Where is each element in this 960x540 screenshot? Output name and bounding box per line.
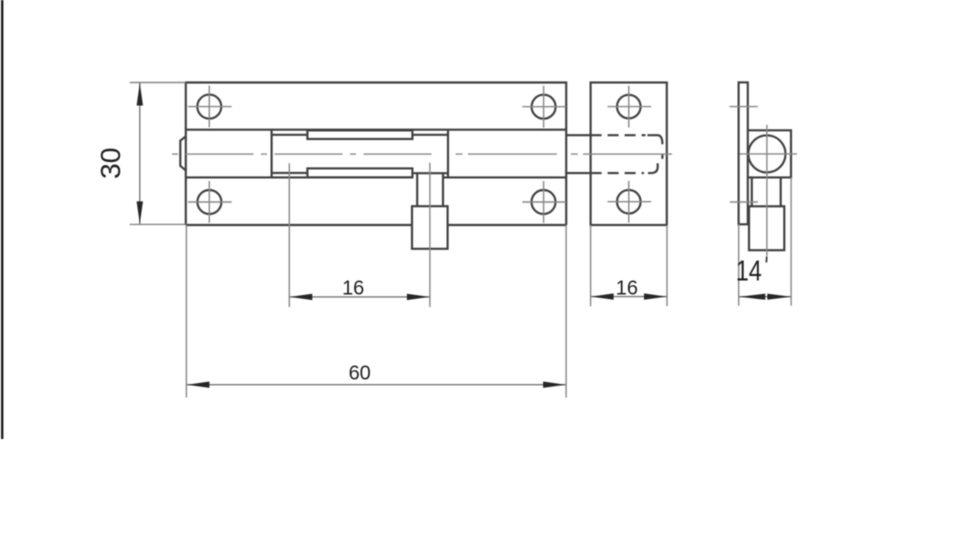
carriage top inset line left bbox=[272, 134, 308, 136]
arrow 16 main right bbox=[407, 294, 430, 300]
keeper hole tick v top bbox=[628, 86, 630, 128]
knob stem right edge bbox=[442, 173, 444, 206]
protruding bolt bottom edge bbox=[566, 172, 590, 174]
barrel bottom edge bbox=[186, 176, 566, 178]
knob body bbox=[412, 206, 448, 249]
carriage top inset line right bbox=[412, 134, 448, 136]
tick mark after 14 bbox=[765, 257, 768, 263]
hole tick v bottom-right bbox=[543, 181, 545, 223]
dim line 14 bbox=[739, 296, 792, 298]
svg-text:60: 60 bbox=[349, 362, 371, 384]
bottom guide rail bbox=[307, 168, 412, 177]
dim line 60 bbox=[186, 384, 566, 386]
arrow 30 up bbox=[137, 83, 143, 106]
side bolt circle bbox=[748, 135, 785, 172]
carriage bottom inset line right bbox=[412, 172, 448, 174]
hidden bolt end mid dash bbox=[661, 154, 663, 159]
arrow 16 main left bbox=[290, 294, 313, 300]
scan border artifact left edge bbox=[1, 0, 3, 439]
keeper hole tick v bottom bbox=[628, 181, 630, 223]
screw hole top-left bbox=[197, 95, 221, 119]
screw hole bottom-left bbox=[197, 190, 221, 214]
extension keeper16 right bbox=[666, 225, 668, 306]
extension 14 left bbox=[738, 224, 740, 305]
barrel top edge bbox=[186, 129, 566, 131]
keeper screw hole bottom bbox=[617, 190, 641, 214]
horizontal chain center line main axis left part bbox=[172, 153, 437, 155]
protruding bolt top edge bbox=[566, 134, 590, 136]
side screw tick lower bbox=[730, 201, 758, 203]
keeper hole tick h bottom bbox=[608, 201, 652, 203]
extension 30 bottom bbox=[130, 223, 186, 225]
dim line 30 bbox=[139, 83, 141, 225]
hole tick h top-left bbox=[188, 106, 232, 108]
bolt left end cap bbox=[180, 136, 186, 170]
side circle h center line bbox=[740, 153, 798, 155]
arrow 60 right bbox=[543, 382, 566, 388]
side knob stem right bbox=[780, 177, 782, 206]
svg-text:14: 14 bbox=[736, 256, 762, 288]
hidden bolt top dashed bbox=[591, 134, 646, 136]
extension 30 top bbox=[130, 82, 186, 84]
screw hole bottom-right bbox=[532, 190, 556, 214]
arrow 60 left bbox=[187, 382, 210, 388]
hidden bolt bottom dashed bbox=[591, 172, 644, 174]
side knob body bbox=[749, 206, 784, 250]
hole tick v bottom-left bbox=[208, 181, 210, 223]
extension line 16 left bbox=[288, 163, 290, 307]
arrow 30 down bbox=[137, 201, 143, 224]
hidden bolt end top hook bbox=[647, 135, 662, 144]
hole tick h bottom-right bbox=[522, 201, 566, 203]
top guide rail bbox=[307, 130, 412, 139]
knob center line bbox=[429, 163, 431, 307]
knob stem left edge bbox=[416, 173, 418, 206]
extension 14 right bbox=[790, 177, 792, 305]
hole tick h top-right bbox=[522, 106, 566, 108]
side plate strip bbox=[739, 82, 748, 224]
arrow 16 keeper right bbox=[644, 293, 667, 299]
arrow 14 left bbox=[739, 294, 765, 300]
horizontal chain center line main axis right part bbox=[456, 153, 672, 155]
dim line 16 keeper bbox=[591, 296, 667, 298]
keeper hole tick h top bbox=[608, 106, 652, 108]
dim line 16 main bbox=[289, 296, 430, 298]
side barrel box bbox=[748, 130, 791, 177]
screw hole top-right bbox=[532, 95, 556, 119]
main plate outline bbox=[186, 83, 566, 226]
side screw tick upper bbox=[730, 106, 758, 108]
slider carriage left edge bbox=[271, 130, 273, 178]
keeper screw hole top bbox=[617, 95, 641, 119]
slider carriage right edge bbox=[447, 130, 449, 178]
arrow 16 keeper left bbox=[591, 293, 614, 299]
svg-text:16: 16 bbox=[616, 278, 638, 300]
svg-text:16: 16 bbox=[342, 277, 364, 299]
svg-text:30: 30 bbox=[95, 148, 126, 180]
keeper plate outline bbox=[591, 83, 667, 226]
extension 60 left bbox=[185, 225, 187, 398]
hidden bolt end bottom hook bbox=[648, 163, 658, 173]
hole tick h bottom-left bbox=[188, 201, 232, 203]
hole tick v top-right bbox=[543, 86, 545, 128]
side knob stem left bbox=[751, 177, 753, 206]
carriage bottom inset line left bbox=[272, 172, 308, 174]
extension 60 right bbox=[565, 225, 567, 398]
arrow 14 right bbox=[767, 294, 791, 300]
extension keeper16 left bbox=[590, 225, 592, 306]
hole tick v top-left bbox=[208, 86, 210, 128]
side v center line bbox=[766, 125, 768, 256]
